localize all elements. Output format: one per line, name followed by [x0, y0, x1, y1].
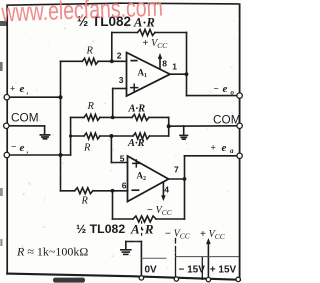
- svg-text:A2: A2: [137, 171, 147, 183]
- svg-text:R: R: [86, 46, 94, 57]
- op-amp U2 A2 triangle: [128, 156, 169, 202]
- svg-text:R: R: [83, 143, 91, 154]
- svg-text:e: e: [222, 142, 227, 154]
- svg-text:−: −: [214, 84, 219, 94]
- svg-text:A·R: A·R: [128, 104, 146, 115]
- wire feedback A1 right drop: [186, 33, 188, 96]
- terminal +ea: [237, 153, 242, 158]
- wire A1 output: [170, 73, 187, 75]
- svg-text:4: 4: [164, 185, 169, 195]
- ground right COM: [180, 135, 188, 139]
- resistor A·R feedback A1: [138, 30, 156, 36]
- svg-text:R: R: [87, 101, 95, 112]
- minus sign A1: [131, 60, 137, 62]
- svg-text:R: R: [81, 196, 89, 207]
- wire feedback A2 right riser: [184, 156, 186, 219]
- junction +e1 node: [59, 95, 63, 99]
- svg-text:1: 1: [172, 62, 177, 72]
- svg-text:+: +: [10, 84, 15, 94]
- wire 0V riser: [140, 242, 142, 278]
- wire -15V dashed riser: [175, 239, 177, 279]
- svg-text:8: 8: [162, 58, 167, 68]
- wire +e1 input: [7, 96, 61, 98]
- svg-text:3: 3: [119, 75, 124, 85]
- junction V2 tap: [69, 134, 72, 137]
- svg-text:+ VCC: + VCC: [200, 229, 226, 241]
- junction -e2 node: [59, 153, 63, 157]
- wire left ground drop: [44, 126, 46, 134]
- svg-text:7: 7: [174, 165, 179, 175]
- wire A2 output: [169, 178, 185, 180]
- svg-text:− VCC: − VCC: [147, 205, 173, 217]
- wire pin2 lead: [61, 60, 127, 62]
- svg-text:−: −: [11, 142, 16, 152]
- junction COM node: [167, 124, 171, 128]
- wire feedback A2 left drop: [112, 191, 114, 219]
- wire feedback A2 bottom: [113, 218, 185, 220]
- wire feedback A1 left drop: [111, 33, 113, 62]
- 0V ground hook: [121, 242, 142, 255]
- resistor R3: [84, 133, 100, 139]
- wire COM junction vertical: [168, 117, 170, 136]
- resistor A·R lower: [133, 133, 150, 139]
- minus sign A2: [132, 189, 138, 191]
- junction pin3 network: [111, 116, 115, 120]
- dotted link to 0V: [141, 222, 143, 239]
- svg-text:e: e: [223, 83, 228, 95]
- terminal -15V: [174, 277, 178, 281]
- svg-text:,: ,: [27, 147, 29, 155]
- terminal COM left: [4, 123, 9, 128]
- scan smudges: [0, 21, 85, 283]
- terminal 0V: [139, 276, 143, 280]
- noise: [9, 9, 236, 271]
- plus sign A1: [131, 84, 138, 91]
- wire right ground drop: [183, 126, 185, 135]
- wire COM left: [7, 125, 45, 127]
- terminal COM right: [237, 123, 242, 128]
- svg-text:+: +: [211, 143, 216, 153]
- resistor R4: [75, 188, 93, 194]
- wire lower middle: [71, 135, 169, 137]
- resistor A·R upper: [132, 114, 149, 120]
- wire -eo output lead: [187, 95, 240, 97]
- svg-text:a: a: [230, 147, 234, 155]
- svg-text:A·R: A·R: [130, 222, 155, 237]
- junction A2 output: [183, 177, 187, 181]
- resistor R1: [82, 58, 98, 64]
- svg-text:− VCC: − VCC: [165, 229, 191, 241]
- pin4 -Vcc arrow: [162, 182, 166, 200]
- wire COM to right terminal: [169, 125, 240, 127]
- pin8 +Vcc arrow: [158, 54, 162, 69]
- wire pin6 lead: [61, 190, 128, 192]
- svg-text:,: ,: [27, 88, 29, 96]
- svg-text:COM: COM: [213, 113, 241, 127]
- wire vertical rail V1: [60, 61, 62, 191]
- svg-text:0V: 0V: [145, 265, 158, 276]
- wire pin3 lead: [113, 88, 127, 90]
- svg-text:e: e: [20, 83, 25, 95]
- svg-text:R ≈ 1k~100kΩ: R ≈ 1k~100kΩ: [16, 245, 88, 259]
- wire divider -15V/+15V: [201, 257, 203, 279]
- terminal -eo: [237, 93, 242, 98]
- plus sign A2: [133, 160, 140, 167]
- wire pin3 drop: [112, 89, 114, 118]
- junction pin5 network: [109, 134, 113, 138]
- svg-text:+ VCC: + VCC: [143, 38, 169, 50]
- resistor A·R feedback A2: [133, 216, 156, 222]
- junction pin6 feedback: [111, 189, 115, 193]
- svg-text:5: 5: [120, 154, 125, 164]
- svg-text:e: e: [20, 142, 25, 154]
- wire vertical rail V2: [70, 117, 72, 155]
- wire -e2 input: [7, 154, 71, 156]
- resistor R2: [84, 114, 100, 120]
- ground left COM: [40, 135, 49, 139]
- svg-text:A1: A1: [138, 68, 148, 80]
- terminal -e2: [4, 152, 9, 157]
- wire upper middle: [71, 116, 169, 118]
- svg-text:+ 15V: + 15V: [210, 265, 237, 276]
- wire feedback A1 top: [112, 32, 187, 34]
- junction A1 output: [185, 72, 189, 76]
- wire pin5 drop: [110, 136, 112, 163]
- svg-text:− 15V: − 15V: [179, 265, 206, 276]
- terminal corner: [236, 277, 240, 281]
- box top edges: [141, 257, 166, 259]
- junction pin2 feedback: [110, 59, 114, 63]
- terminal +15V: [206, 277, 210, 281]
- wire +ea output lead: [185, 155, 240, 157]
- svg-text:½ TL082: ½ TL082: [76, 222, 125, 236]
- svg-text:o: o: [231, 89, 235, 97]
- terminal +e1: [4, 95, 9, 100]
- svg-text:COM: COM: [11, 111, 39, 125]
- wire pin5 lead: [111, 162, 127, 164]
- op-amp U1 A1 triangle: [127, 53, 171, 97]
- svg-text:6: 6: [122, 180, 127, 190]
- wire +15V riser with up arrow: [207, 239, 211, 280]
